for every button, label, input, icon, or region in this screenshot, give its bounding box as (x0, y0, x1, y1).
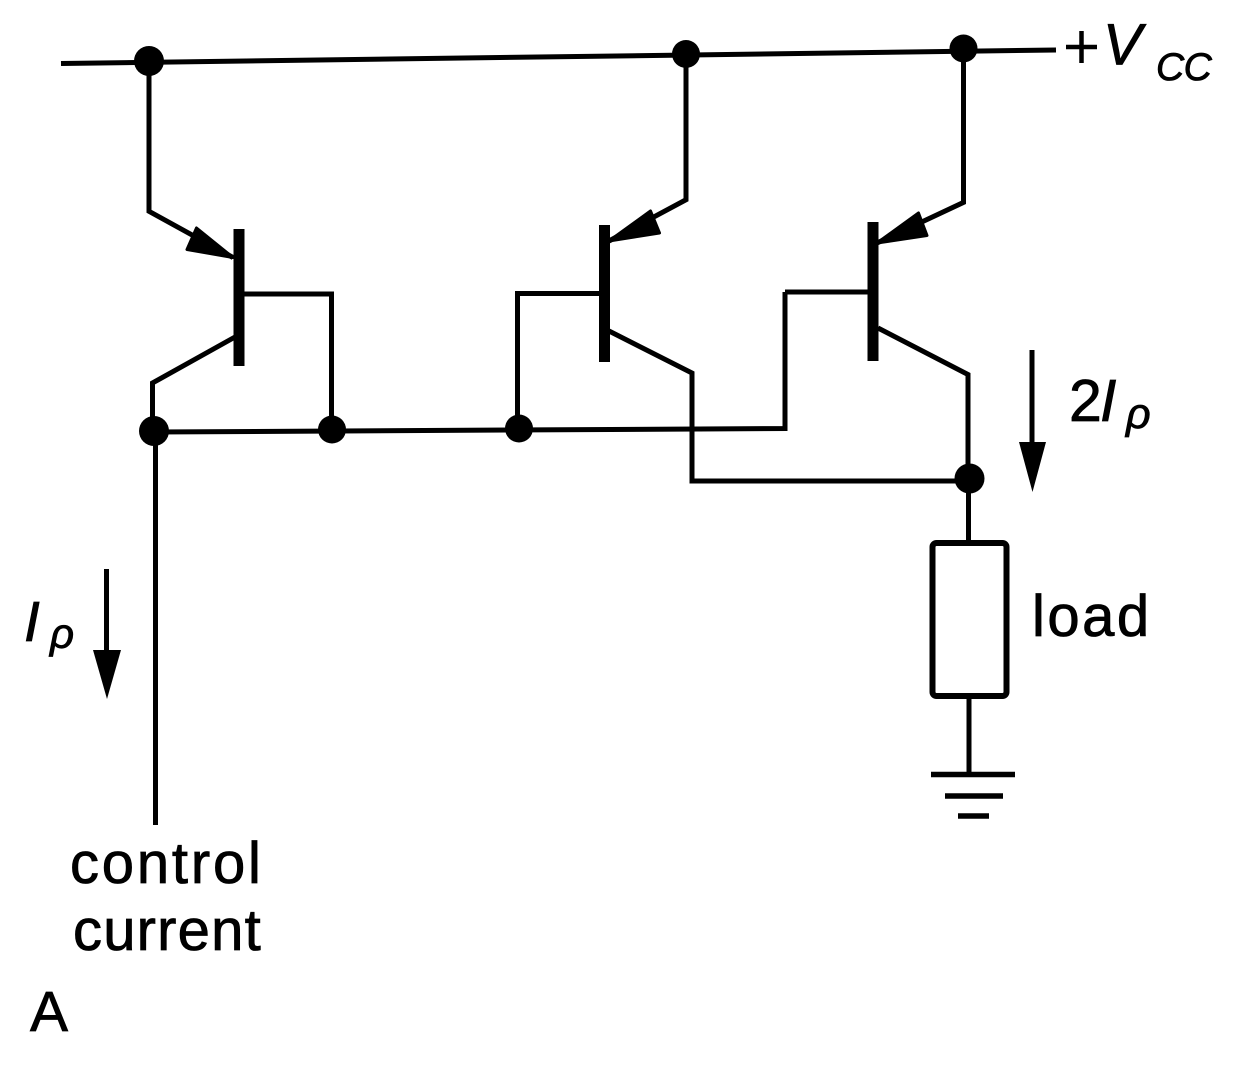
svg-text:I: I (24, 590, 40, 654)
svg-text:CC: CC (1156, 46, 1213, 89)
node: rail junction to Q1 emitter (134, 46, 164, 76)
node: rail junction to Q3 emitter (950, 35, 978, 63)
transistor Q1 emitter arrow (PNP, into base) (187, 228, 233, 258)
wire: base/collector mirror bus (154, 292, 785, 432)
transistor Q2 emitter arrow (PNP, into base) (609, 211, 660, 241)
resistor: load (rectangle) (933, 543, 1007, 696)
svg-text:A: A (30, 980, 68, 1044)
current arrow: Ip control current (93, 569, 121, 699)
current arrow: 2Ip into load (1019, 350, 1046, 492)
wire: Q3 collector down to output node (878, 328, 968, 478)
transistor Q3 base bar (868, 222, 879, 361)
node: rail junction to Q2 emitter (672, 40, 700, 68)
wire: control current input (left vertical) (153, 431, 158, 825)
wire: Q2 base to mirror bus (518, 294, 601, 426)
label: +Vcc (1066, 13, 1213, 90)
transistor Q1 emitter wire (149, 61, 233, 258)
node: output node above load (955, 464, 985, 494)
transistor Q1 base bar (234, 229, 245, 366)
svg-text:V: V (1103, 13, 1147, 78)
node: mirror bus junction at Q2 base (505, 415, 533, 443)
transistor Q3 emitter wire (877, 50, 964, 243)
svg-text:current: current (73, 898, 262, 963)
ground symbol (931, 775, 1015, 817)
label: 2Ip (1069, 368, 1151, 438)
wire: output node to load (966, 478, 971, 543)
label: Ip (24, 590, 74, 657)
transistor Q2 base bar (599, 225, 610, 362)
wire: Q3 base to mirror bus corner (785, 290, 868, 295)
svg-text:load: load (1032, 584, 1152, 649)
wire: Q1 base to mirror bus (243, 294, 332, 425)
wire: Q1 collector to mirror bus (153, 337, 236, 428)
svg-text:ρ: ρ (48, 610, 74, 657)
node: mirror bus junction at Q1 base (318, 416, 346, 444)
transistor Q3 emitter arrow (PNP, into base) (877, 213, 927, 243)
node: mirror bus junction at Q1 collector (139, 416, 169, 446)
svg-text:ρ: ρ (1124, 390, 1151, 438)
wire: load to ground (967, 696, 972, 774)
svg-text:2: 2 (1069, 368, 1102, 434)
label: control current (70, 831, 264, 963)
transistor Q2 emitter wire (609, 54, 686, 241)
svg-text:I: I (1100, 368, 1116, 434)
svg-text:control: control (70, 831, 264, 896)
wire: +Vcc supply rail (61, 50, 1056, 64)
wire: Q2 collector down and right to output node (609, 331, 968, 481)
